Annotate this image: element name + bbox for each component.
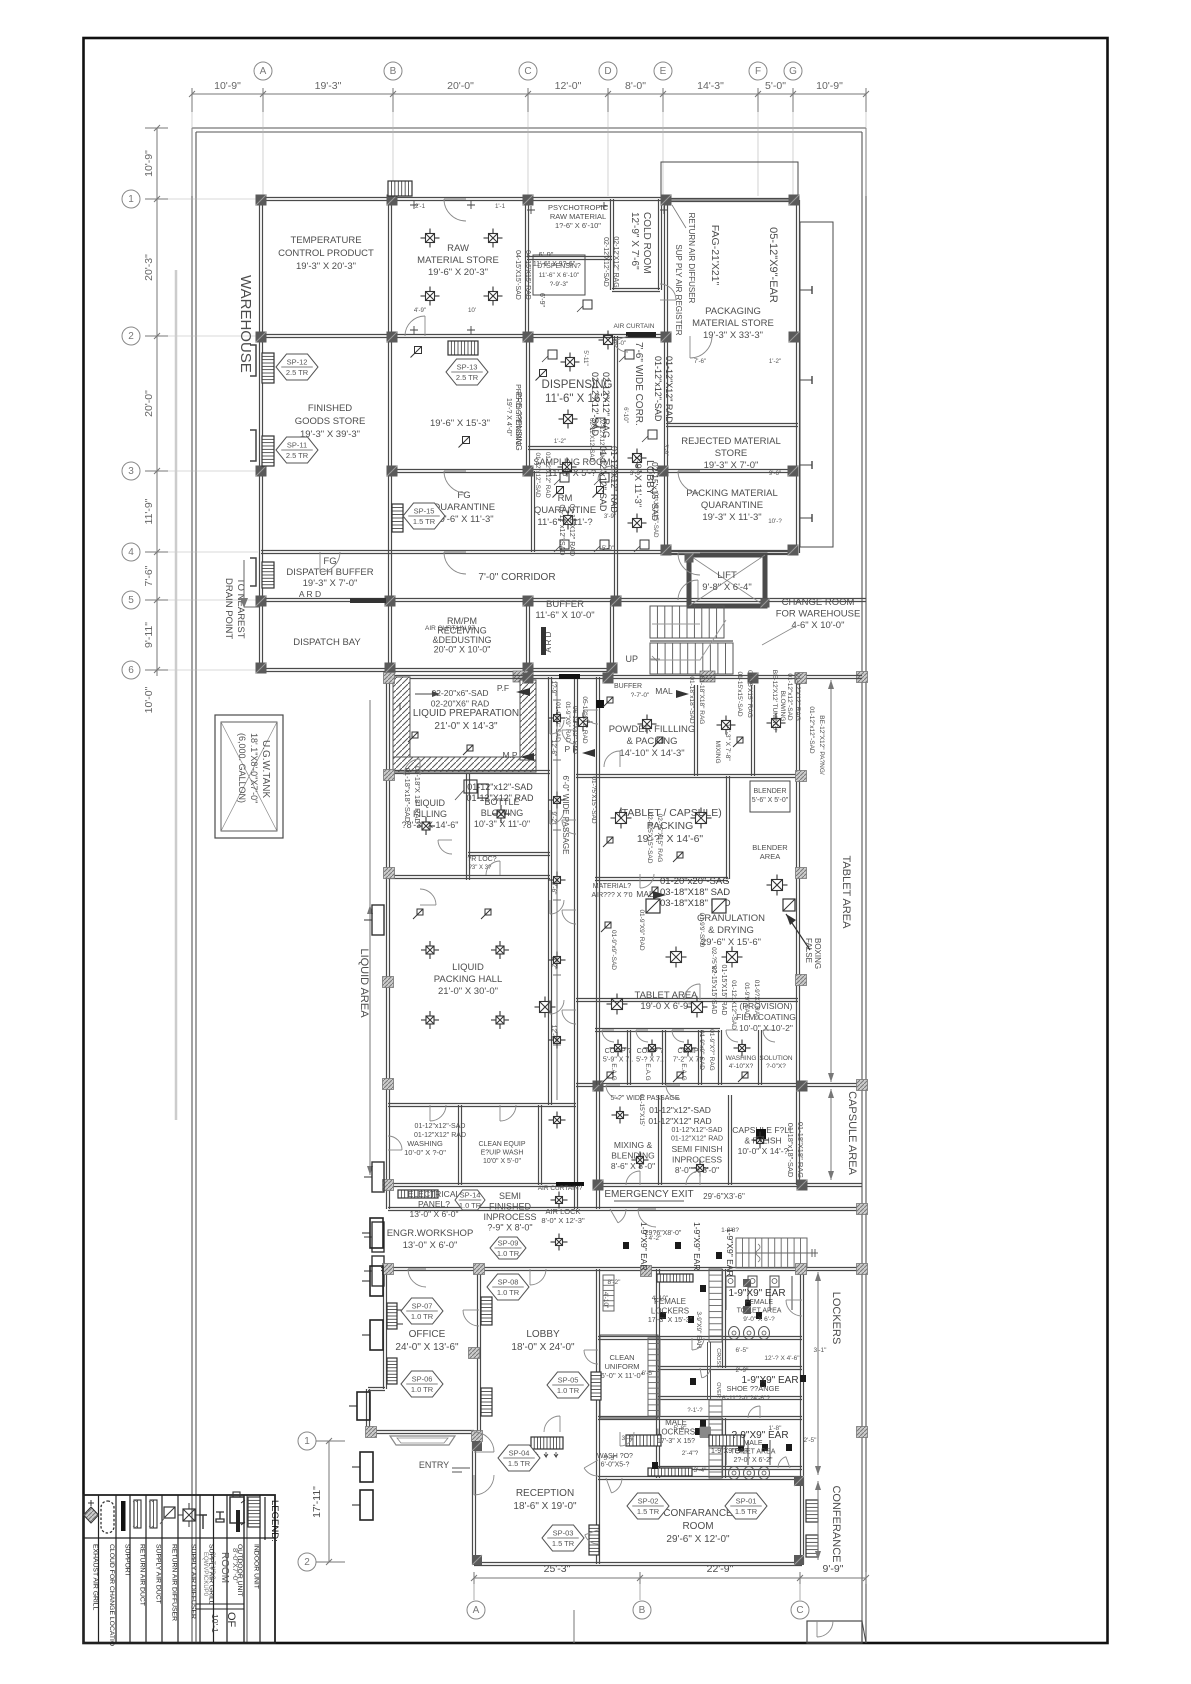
svg-text:5'-0": 5'-0" bbox=[765, 80, 786, 92]
svg-text:U.G.W.TANK: U.G.W.TANK bbox=[260, 740, 271, 798]
svg-text:3'-4": 3'-4" bbox=[694, 1467, 708, 1474]
svg-text:1.0 TR: 1.0 TR bbox=[557, 1386, 580, 1395]
svg-text:LIFT: LIFT bbox=[717, 570, 737, 581]
svg-text:EMERGENCY EXIT: EMERGENCY EXIT bbox=[604, 1189, 693, 1200]
svg-text:E.A.G: E.A.G bbox=[644, 1063, 651, 1080]
svg-text:UP: UP bbox=[625, 654, 638, 664]
svg-text:8'-0"X7'-0": 8'-0"X7'-0" bbox=[231, 1548, 240, 1583]
svg-text:02-12'X12" RAG: 02-12'X12" RAG bbox=[598, 417, 605, 463]
svg-text:10'-3" X 11'-0": 10'-3" X 11'-0" bbox=[474, 819, 530, 829]
svg-text:01-18"x18"-SAD: 01-18"x18"-SAD bbox=[403, 768, 412, 823]
svg-text:1?-6" X 6'-10": 1?-6" X 6'-10" bbox=[555, 221, 601, 230]
svg-text:6'-10": 6'-10" bbox=[622, 407, 629, 423]
svg-text:MALE: MALE bbox=[743, 1440, 762, 1447]
svg-text:4'-10": 4'-10" bbox=[602, 1292, 609, 1309]
svg-text:01-12"X12" RAD: 01-12"X12" RAD bbox=[609, 446, 619, 513]
svg-text:MATERIAL STORE: MATERIAL STORE bbox=[692, 318, 774, 329]
svg-text:21'-0" X 30'-0": 21'-0" X 30'-0" bbox=[438, 986, 498, 997]
svg-text:11'-6" X 9?-6": 11'-6" X 9?-6" bbox=[533, 261, 576, 268]
svg-text:1-9"X9" EAR: 1-9"X9" EAR bbox=[692, 1222, 702, 1271]
svg-text:SP-03: SP-03 bbox=[553, 1529, 574, 1538]
svg-text:2.5 TR: 2.5 TR bbox=[286, 451, 309, 460]
svg-text:1.5 TR: 1.5 TR bbox=[637, 1507, 660, 1516]
svg-text:5: 5 bbox=[128, 595, 134, 606]
svg-text:17'-11": 17'-11" bbox=[311, 1486, 323, 1518]
svg-text:FAG-21'X21": FAG-21'X21" bbox=[709, 225, 721, 286]
svg-text:7'-6": 7'-6" bbox=[694, 358, 706, 365]
svg-text:6: 6 bbox=[128, 665, 134, 676]
svg-text:AREA: AREA bbox=[760, 852, 780, 861]
svg-text:SP-04: SP-04 bbox=[509, 1449, 530, 1458]
svg-text:9'-0" X 6'-?: 9'-0" X 6'-? bbox=[743, 1316, 775, 1323]
svg-text:AIR CURTAIN 07: AIR CURTAIN 07 bbox=[425, 625, 475, 632]
svg-text:25'-3": 25'-3" bbox=[544, 1563, 571, 1575]
svg-text:AIR CURTAIN?: AIR CURTAIN? bbox=[538, 1185, 583, 1192]
svg-text:14'-10" X 14'-3": 14'-10" X 14'-3" bbox=[619, 748, 684, 759]
svg-text:1: 1 bbox=[304, 1436, 310, 1447]
svg-text:13'-0" X 6'-0": 13'-0" X 6'-0" bbox=[403, 1240, 458, 1251]
svg-text:PSYCHOTROPIC: PSYCHOTROPIC bbox=[548, 203, 609, 212]
svg-text:REJECTED MATERIAL: REJECTED MATERIAL bbox=[681, 436, 781, 447]
svg-text:10'-?: 10'-? bbox=[768, 518, 782, 525]
svg-text:4'-10"X?: 4'-10"X? bbox=[729, 1063, 754, 1070]
svg-text:MAL: MAL bbox=[655, 686, 673, 696]
svg-text:PACKING MATERIAL: PACKING MATERIAL bbox=[686, 488, 778, 499]
svg-text:INPROCESS: INPROCESS bbox=[672, 1155, 722, 1165]
svg-text:01-9"X?" RAG: 01-9"X?" RAG bbox=[708, 1029, 715, 1070]
svg-text:SOLUTION: SOLUTION bbox=[759, 1055, 793, 1062]
svg-text:2: 2 bbox=[128, 331, 134, 342]
svg-text:MIXING: MIXING bbox=[714, 740, 721, 763]
svg-text:2: 2 bbox=[304, 1557, 310, 1568]
svg-text:5'-6" X 5'-0": 5'-6" X 5'-0" bbox=[752, 797, 789, 804]
svg-text:01-12"X12" RAD: 01-12"X12" RAD bbox=[544, 452, 551, 499]
svg-text:19'-3" X 7'-0": 19'-3" X 7'-0" bbox=[704, 460, 759, 471]
svg-text:10'-0": 10'-0" bbox=[143, 686, 155, 713]
svg-text:DISPATCH BAY: DISPATCH BAY bbox=[293, 637, 361, 648]
svg-text:01-12"x12"-SAD: 01-12"x12"-SAD bbox=[649, 1105, 711, 1115]
svg-text:02-4?5'X15"-SAD: 02-4?5'X15"-SAD bbox=[646, 813, 653, 864]
svg-text:TOILET AREA: TOILET AREA bbox=[737, 1308, 782, 1315]
svg-text:17'-3" X 15?: 17'-3" X 15? bbox=[657, 1438, 695, 1445]
svg-text:AIR CURTAIN: AIR CURTAIN bbox=[614, 323, 655, 330]
svg-text:UNIFORM: UNIFORM bbox=[605, 1362, 640, 1371]
svg-text:RETURN AIR DIFFUSER: RETURN AIR DIFFUSER bbox=[687, 213, 696, 304]
svg-text:& PACKING: & PACKING bbox=[626, 736, 677, 747]
svg-text:9'-8" X 6'-4": 9'-8" X 6'-4" bbox=[702, 582, 751, 593]
svg-text:02-?5"x?: 02-?5"x? bbox=[710, 947, 717, 973]
svg-text:2.5 TR: 2.5 TR bbox=[456, 373, 479, 382]
svg-text:1.0 TR: 1.0 TR bbox=[411, 1385, 434, 1394]
svg-text:SP-07: SP-07 bbox=[412, 1302, 433, 1311]
svg-text:PRE-??ENSING: PRE-??ENSING bbox=[514, 392, 523, 451]
svg-text:TABLET AREA: TABLET AREA bbox=[840, 856, 852, 930]
svg-text:1'-2": 1'-2" bbox=[769, 358, 781, 365]
svg-text:TABLET AREA: TABLET AREA bbox=[634, 990, 698, 1001]
svg-text:2?-0" X 6'-2": 2?-0" X 6'-2" bbox=[734, 1457, 774, 1464]
svg-text:01-12"X12" RAD: 01-12"X12" RAD bbox=[414, 1132, 466, 1139]
svg-text:SP-01: SP-01 bbox=[736, 1497, 757, 1506]
svg-text:WASHING: WASHING bbox=[407, 1139, 443, 1148]
svg-text:1.5 TR: 1.5 TR bbox=[735, 1507, 758, 1516]
svg-text:01-12"X12" RAD: 01-12"X12" RAD bbox=[671, 1136, 723, 1143]
svg-text:FINISHED: FINISHED bbox=[308, 403, 352, 414]
svg-text:COLD ROOM: COLD ROOM bbox=[641, 212, 652, 274]
svg-text:6'-9": 6'-9" bbox=[539, 250, 554, 259]
svg-text:4'-9": 4'-9" bbox=[414, 307, 426, 314]
svg-text:01-9"X9" RAD: 01-9"X9" RAD bbox=[638, 909, 645, 950]
svg-text:AIR??? X ?'0: AIR??? X ?'0 bbox=[591, 892, 632, 899]
svg-text:INDOOR UNIT: INDOOR UNIT bbox=[253, 1544, 260, 1589]
svg-text:5'-8": 5'-8" bbox=[674, 1425, 688, 1432]
svg-text:19'-6" X 20'-3": 19'-6" X 20'-3" bbox=[428, 267, 488, 278]
svg-text:1'-1: 1'-1 bbox=[495, 203, 506, 210]
svg-text:CLEAN: CLEAN bbox=[609, 1353, 634, 1362]
svg-text:A: A bbox=[473, 1605, 480, 1616]
svg-text:01-12"X12" RAD: 01-12"X12" RAD bbox=[648, 1116, 711, 1126]
svg-text:3'-1": 3'-1" bbox=[814, 1347, 828, 1354]
svg-text:?R LOC?: ?R LOC? bbox=[467, 856, 496, 863]
svg-text:7'-6" WIDE CORR.: 7'-6" WIDE CORR. bbox=[633, 342, 644, 426]
svg-text:SP-05: SP-05 bbox=[558, 1376, 579, 1385]
svg-text:11'-9": 11'-9" bbox=[143, 498, 155, 524]
svg-text:BUFFER: BUFFER bbox=[614, 683, 642, 690]
svg-text:CLEAN EQUIP: CLEAN EQUIP bbox=[478, 1141, 525, 1148]
svg-text:BLENDER: BLENDER bbox=[753, 788, 786, 795]
svg-text:MATERIAL?: MATERIAL? bbox=[593, 883, 631, 890]
svg-text:SUPPLY AIR DUCT: SUPPLY AIR DUCT bbox=[155, 1544, 162, 1604]
svg-text:G: G bbox=[789, 66, 797, 77]
svg-text:10'0" X 5'-0": 10'0" X 5'-0" bbox=[483, 1158, 522, 1165]
svg-text:C: C bbox=[796, 1605, 803, 1616]
svg-text:C: C bbox=[524, 66, 531, 77]
svg-text:20'-0" X 10'-0": 20'-0" X 10'-0" bbox=[434, 645, 491, 655]
svg-text:INPROCESS: INPROCESS bbox=[483, 1212, 536, 1222]
svg-text:11'-6" X 10'-0": 11'-6" X 10'-0" bbox=[535, 610, 594, 621]
svg-text:8'-2": 8'-2" bbox=[608, 1279, 622, 1286]
svg-text:SP-02: SP-02 bbox=[638, 1497, 659, 1506]
svg-text:OF: OF bbox=[225, 1612, 237, 1628]
svg-text:21'-0" X 14'-3": 21'-0" X 14'-3" bbox=[434, 721, 498, 732]
svg-text:7'-0" CORRIDOR: 7'-0" CORRIDOR bbox=[478, 572, 555, 583]
svg-text:10'-9": 10'-9" bbox=[214, 80, 241, 92]
svg-text:E?UIP WASH: E?UIP WASH bbox=[481, 1150, 524, 1157]
svg-text:1.0 TR: 1.0 TR bbox=[497, 1249, 520, 1258]
svg-text:10'-0" X ?-0": 10'-0" X ?-0" bbox=[404, 1148, 446, 1157]
svg-text:02-?5"X15" RAG: 02-?5"X15" RAG bbox=[656, 814, 663, 863]
svg-text:WASHING: WASHING bbox=[726, 1055, 757, 1062]
svg-text:OFFICE: OFFICE bbox=[409, 1329, 446, 1340]
svg-text:1.5 TR: 1.5 TR bbox=[413, 517, 436, 526]
svg-text:01-15'x15'-SAD: 01-15'x15'-SAD bbox=[736, 671, 743, 716]
svg-text:6'-5": 6'-5" bbox=[736, 1347, 750, 1354]
svg-text:1.5 TR: 1.5 TR bbox=[552, 1539, 575, 1548]
svg-text:SUPPLY AIR DIFFUSER: SUPPLY AIR DIFFUSER bbox=[190, 1544, 197, 1619]
svg-text:22'-9": 22'-9" bbox=[707, 1563, 734, 1575]
svg-text:AIR LOCK: AIR LOCK bbox=[545, 1207, 580, 1216]
svg-text:FEMALE: FEMALE bbox=[745, 1299, 773, 1306]
svg-text:01-15"X15': 01-15"X15' bbox=[638, 1094, 645, 1126]
svg-text:01-12"X12" RAD: 01-12"X12" RAD bbox=[467, 793, 534, 803]
svg-text:01-18"x18"-SAD: 01-18"x18"-SAD bbox=[786, 1123, 795, 1178]
svg-text:3: 3 bbox=[128, 466, 134, 477]
svg-text:1?-9": 1?-9" bbox=[550, 680, 557, 696]
svg-text:1-3'8?: 1-3'8? bbox=[721, 1227, 739, 1234]
svg-text:SP-09: SP-09 bbox=[498, 1239, 519, 1248]
svg-text:8'-0" X 12'-3": 8'-0" X 12'-3" bbox=[541, 1216, 585, 1225]
svg-text:1.0 TR: 1.0 TR bbox=[411, 1312, 434, 1321]
svg-text:SUPPORT: SUPPORT bbox=[124, 1544, 131, 1577]
svg-text:EQWVPICKUP0: EQWVPICKUP0 bbox=[202, 1552, 208, 1597]
svg-text:B: B bbox=[390, 66, 397, 77]
svg-text:18'-6" X 19'-0": 18'-6" X 19'-0" bbox=[513, 1501, 577, 1512]
svg-text:02-12'X12'-SAD: 02-12'X12'-SAD bbox=[602, 237, 609, 287]
svg-text:QUARANTINE: QUARANTINE bbox=[701, 500, 763, 511]
svg-text:01-18"X18" RAG: 01-18"X18" RAG bbox=[698, 676, 705, 725]
svg-text:01-121X12"-SAD: 01-121X12"-SAD bbox=[730, 980, 737, 1030]
svg-text:1.5 TR: 1.5 TR bbox=[508, 1459, 531, 1468]
svg-text:QUARANTINE: QUARANTINE bbox=[433, 502, 495, 513]
svg-text:A: A bbox=[260, 66, 267, 77]
svg-text:19'-6" X 15'-3": 19'-6" X 15'-3" bbox=[430, 418, 490, 429]
svg-text:CROSS: CROSS bbox=[715, 1348, 721, 1368]
svg-text:1: 1 bbox=[128, 194, 134, 205]
svg-text:2'-9": 2'-9" bbox=[736, 1367, 750, 1374]
svg-text:GOODS STORE: GOODS STORE bbox=[295, 416, 366, 427]
svg-text:MATERIAL STORE: MATERIAL STORE bbox=[417, 255, 499, 266]
svg-text:01-15'X15"-SAD: 01-15'X15"-SAD bbox=[652, 493, 659, 539]
svg-text:CONFERANCE: CONFERANCE bbox=[830, 1485, 842, 1562]
svg-text:LIQUID AREA: LIQUID AREA bbox=[358, 948, 370, 1018]
svg-text:10'-0" X 14'-?: 10'-0" X 14'-? bbox=[738, 1146, 789, 1156]
svg-text:6'-0" X 11'-0": 6'-0" X 11'-0" bbox=[601, 1371, 644, 1380]
svg-text:MIXING &: MIXING & bbox=[614, 1140, 653, 1150]
svg-text:20'-3": 20'-3" bbox=[143, 254, 155, 281]
svg-text:6'-11"?-0"?4'-6"?: 6'-11"?-0"?4'-6"? bbox=[722, 1395, 770, 1402]
svg-text:10'-9": 10'-9" bbox=[816, 80, 843, 92]
svg-text:19'-? X 4'-0": 19'-? X 4'-0" bbox=[505, 398, 512, 436]
svg-text:4: 4 bbox=[128, 547, 134, 558]
svg-text:CLOUD FOR CHANGE LOCATIO: CLOUD FOR CHANGE LOCATIO bbox=[108, 1544, 115, 1646]
svg-text:01-12"x12"-SAD: 01-12"x12"-SAD bbox=[415, 1123, 466, 1130]
svg-text:BLENDING: BLENDING bbox=[611, 1151, 654, 1161]
svg-text:?-9'-3": ?-9'-3" bbox=[550, 281, 569, 288]
svg-text:A R D: A R D bbox=[299, 589, 321, 599]
svg-text:6'-0" WIDE PASSAGE: 6'-0" WIDE PASSAGE bbox=[561, 776, 570, 855]
svg-text:F: F bbox=[755, 66, 761, 77]
svg-text:CHANGE ROOM: CHANGE ROOM bbox=[782, 597, 855, 608]
svg-text:12'-9" X 7'-6": 12'-9" X 7'-6" bbox=[629, 212, 640, 270]
svg-text:9'-6": 9'-6" bbox=[769, 470, 781, 477]
svg-text:4'-10": 4'-10" bbox=[652, 1295, 669, 1302]
svg-text:BUFFER: BUFFER bbox=[546, 599, 584, 610]
svg-text:19'-3" X 11'-3": 19'-3" X 11'-3" bbox=[702, 512, 761, 523]
svg-text:RECEPTION: RECEPTION bbox=[516, 1488, 574, 1499]
svg-text:SP-13: SP-13 bbox=[457, 363, 478, 372]
svg-text:4-6" X 10'-0": 4-6" X 10'-0" bbox=[792, 620, 845, 631]
svg-text:(6,000. GALLON): (6,000. GALLON) bbox=[237, 733, 247, 803]
svg-text:LOCKERS: LOCKERS bbox=[651, 1307, 689, 1316]
svg-text:11'-6" X 6'-10": 11'-6" X 6'-10" bbox=[539, 272, 580, 279]
svg-text:2.5 TR: 2.5 TR bbox=[286, 368, 309, 377]
svg-text:ENGR.WORKSHOP: ENGR.WORKSHOP bbox=[387, 1228, 474, 1239]
svg-text:02-15'x15'-SAD: 02-15'x15'-SAD bbox=[710, 966, 717, 1015]
svg-text:01-18"x18"-SAD: 01-18"x18"-SAD bbox=[688, 676, 695, 724]
svg-text:01-18"X18" RAG: 01-18"X18" RAG bbox=[796, 1122, 805, 1178]
svg-text:ENTRY: ENTRY bbox=[419, 1460, 449, 1470]
svg-text:7'-6": 7'-6" bbox=[143, 565, 155, 586]
svg-text:SP-14: SP-14 bbox=[460, 1191, 481, 1200]
svg-text:BLOWING: BLOWING bbox=[779, 691, 786, 722]
svg-text:SP-08: SP-08 bbox=[498, 1278, 519, 1287]
svg-text:SP-12: SP-12 bbox=[287, 358, 308, 367]
svg-text:B: B bbox=[639, 1605, 646, 1616]
svg-text:TEMPERATURE: TEMPERATURE bbox=[290, 235, 361, 246]
svg-text:ELECTRICAL: ELECTRICAL bbox=[408, 1189, 461, 1199]
svg-text:19'-3" X 20'-3": 19'-3" X 20'-3" bbox=[296, 261, 356, 272]
svg-text:D: D bbox=[604, 66, 611, 77]
svg-text:LOCKERS: LOCKERS bbox=[830, 1292, 842, 1345]
svg-text:?L.T.X?;0: ?L.T.X?;0 bbox=[209, 1552, 216, 1580]
svg-text:19'-0 X 6'-9": 19'-0 X 6'-9" bbox=[640, 1001, 691, 1012]
svg-text:13'-0" X 6'-0": 13'-0" X 6'-0" bbox=[410, 1209, 459, 1219]
svg-text:1'-8": 1'-8" bbox=[769, 1425, 783, 1432]
svg-text:05-12"X9"-EAR: 05-12"X9"-EAR bbox=[767, 227, 779, 303]
svg-text:01-?5'X15"-SAD: 01-?5'X15"-SAD bbox=[590, 776, 597, 824]
svg-text:PACKAGING: PACKAGING bbox=[705, 306, 761, 317]
svg-text:P.F: P.F bbox=[497, 683, 509, 693]
svg-text:20'-0": 20'-0" bbox=[143, 390, 155, 417]
svg-text:FINISHED: FINISHED bbox=[489, 1202, 532, 1212]
svg-text:1-9"X9"EAR: 1-9"X9"EAR bbox=[711, 1448, 749, 1455]
svg-text:CAPSULE AREA: CAPSULE AREA bbox=[846, 1091, 858, 1175]
svg-text:01-12"x12"-SAD: 01-12"x12"-SAD bbox=[653, 356, 663, 422]
svg-text:PANEL?: PANEL? bbox=[418, 1199, 450, 1209]
svg-text:2'-1: 2'-1 bbox=[415, 203, 426, 210]
svg-text:01-12"x12"-SAD: 01-12"x12"-SAD bbox=[534, 453, 541, 499]
svg-text:GRANULATION: GRANULATION bbox=[697, 913, 765, 924]
svg-text:1-9"X9" EAR: 1-9"X9" EAR bbox=[639, 1222, 649, 1271]
svg-text:2'-4"?: 2'-4"? bbox=[682, 1450, 699, 1457]
svg-text:01-12"X12" RAD: 01-12"X12" RAD bbox=[664, 356, 674, 423]
svg-text:BOXING: BOXING bbox=[813, 938, 822, 969]
svg-text:12'-0": 12'-0" bbox=[555, 80, 582, 92]
svg-text:01-9"X9" RAD: 01-9"X9" RAD bbox=[564, 701, 571, 742]
svg-text:5'-11": 5'-11" bbox=[582, 350, 589, 365]
svg-text:6'-0"X5-?: 6'-0"X5-? bbox=[601, 1462, 630, 1469]
svg-text:12'-? X 4'-6": 12'-? X 4'-6" bbox=[764, 1355, 800, 1362]
svg-text:SP-15: SP-15 bbox=[414, 507, 435, 516]
svg-text:01-9"x9"-SAD: 01-9"x9"-SAD bbox=[698, 1030, 705, 1070]
svg-text:6'-5": 6'-5" bbox=[642, 1370, 656, 1377]
svg-text:6'-9": 6'-9" bbox=[538, 293, 545, 307]
svg-text:?-1'-?: ?-1'-? bbox=[687, 1408, 703, 1414]
svg-text:19'-3" X 7'-0": 19'-3" X 7'-0" bbox=[303, 578, 358, 589]
svg-text:04-15'X15'-SAD: 04-15'X15'-SAD bbox=[514, 250, 521, 300]
svg-text:01-18"X 18" RAD: 01-18"X 18" RAD bbox=[413, 766, 422, 824]
svg-text:1.0 TR: 1.0 TR bbox=[497, 1288, 520, 1297]
svg-text:1-9"X9" EAR: 1-9"X9" EAR bbox=[741, 1375, 798, 1386]
svg-text:?-9" X 8'-0": ?-9" X 8'-0" bbox=[487, 1223, 532, 1233]
svg-text:01-9"x9"-SAD: 01-9"x9"-SAD bbox=[610, 930, 617, 970]
svg-text:LIQUID: LIQUID bbox=[452, 962, 484, 973]
svg-text:SEMI FINISH: SEMI FINISH bbox=[671, 1144, 722, 1154]
svg-text:10'-9": 10'-9" bbox=[143, 150, 155, 177]
svg-text:02-12'X12'-SAD: 02-12'X12'-SAD bbox=[588, 418, 595, 463]
svg-text:3'-9": 3'-9" bbox=[662, 444, 669, 456]
svg-text:01-9'9'-SAD: 01-9'9'-SAD bbox=[698, 913, 705, 948]
svg-text:01-12'X12" RAG: 01-12'X12" RAG bbox=[794, 673, 801, 721]
svg-text:01-12"x12"-SAD: 01-12"x12"-SAD bbox=[786, 673, 793, 721]
svg-text:SP-11: SP-11 bbox=[287, 441, 307, 450]
svg-text:5'-9" X 7..: 5'-9" X 7.. bbox=[603, 1057, 633, 1064]
svg-text:29'-6"X3'-6": 29'-6"X3'-6" bbox=[703, 1192, 745, 1201]
svg-text:BE-12"X12" PA?NG/: BE-12"X12" PA?NG/ bbox=[818, 715, 825, 775]
svg-text:ROOM: ROOM bbox=[219, 1552, 230, 1583]
svg-text:10'-0" X 10'-2": 10'-0" X 10'-2" bbox=[739, 1023, 793, 1033]
svg-text:3-9"X9" EAR: 3-9"X9" EAR bbox=[695, 1311, 702, 1348]
svg-text:12'-6": 12'-6" bbox=[550, 740, 557, 757]
svg-text:SEMI: SEMI bbox=[499, 1191, 521, 1201]
svg-text:FOR WAREHOUSE: FOR WAREHOUSE bbox=[776, 609, 861, 620]
svg-text:24'-0" X 13'-6": 24'-0" X 13'-6" bbox=[395, 1342, 459, 1353]
svg-text:8'-0": 8'-0" bbox=[625, 80, 646, 92]
svg-text:DISPATCH BUFFER: DISPATCH BUFFER bbox=[286, 567, 373, 578]
svg-text:2'-5": 2'-5" bbox=[804, 1437, 818, 1444]
svg-text:01-20"x20"-SAG: 01-20"x20"-SAG bbox=[660, 876, 730, 887]
svg-text:DRAIN POINT: DRAIN POINT bbox=[223, 578, 234, 639]
svg-text:1-9"X9" EAR: 1-9"X9" EAR bbox=[725, 1228, 735, 1277]
svg-text:RAW: RAW bbox=[447, 243, 469, 254]
svg-text:01-9?X? RAG: 01-9?X? RAG bbox=[753, 980, 760, 1020]
svg-text:1.0 TR: 1.0 TR bbox=[459, 1201, 482, 1210]
svg-text:CONTROL PRODUCT: CONTROL PRODUCT bbox=[278, 248, 374, 259]
svg-text:ROOM: ROOM bbox=[682, 1521, 713, 1532]
svg-text:01-12"x12"-SAD: 01-12"x12"-SAD bbox=[672, 1127, 723, 1134]
svg-text:9'-9": 9'-9" bbox=[823, 1563, 844, 1575]
svg-text:02-20"x6"-SAD: 02-20"x6"-SAD bbox=[431, 688, 488, 698]
svg-text:FALSE: FALSE bbox=[804, 938, 813, 963]
svg-text:19'-3": 19'-3" bbox=[315, 80, 342, 92]
svg-text:LEGEND:: LEGEND: bbox=[269, 1500, 280, 1542]
svg-text:01-12"x12"-SAD: 01-12"x12"-SAD bbox=[558, 505, 565, 556]
svg-text:01-9'9" SAD: 01-9'9" SAD bbox=[743, 982, 750, 1018]
svg-text:EXHAUST AIR GRILL: EXHAUST AIR GRILL bbox=[92, 1544, 99, 1611]
svg-text:01-12"x12"-SAD: 01-12"x12"-SAD bbox=[808, 706, 815, 754]
svg-text:&DEDUSTING: &DEDUSTING bbox=[432, 635, 491, 645]
svg-text:01-15'X15" RAD: 01-15'X15" RAD bbox=[720, 965, 727, 1016]
svg-text:03-18"X18" SAD: 03-18"X18" SAD bbox=[660, 887, 730, 898]
svg-text:RM: RM bbox=[558, 493, 573, 504]
svg-text:RAW MATERIAL: RAW MATERIAL bbox=[550, 212, 606, 221]
svg-text:8'-6" X 8'-0": 8'-6" X 8'-0" bbox=[611, 1161, 655, 1171]
svg-text:?-7'-0": ?-7'-0" bbox=[631, 692, 650, 699]
svg-text:?-0"X?: ?-0"X? bbox=[766, 1063, 786, 1070]
svg-text:WAREHOUSE: WAREHOUSE bbox=[237, 275, 254, 373]
svg-text:PACKING HALL: PACKING HALL bbox=[434, 974, 502, 985]
svg-text:14'-3": 14'-3" bbox=[697, 80, 724, 92]
svg-text:?3" X 3?: ?3" X 3? bbox=[469, 865, 492, 871]
svg-text:LOBBY: LOBBY bbox=[526, 1329, 560, 1340]
svg-text:M.P: M.P bbox=[502, 750, 517, 760]
svg-text:5'-3": 5'-3" bbox=[604, 1455, 618, 1462]
svg-text:SP-06: SP-06 bbox=[412, 1375, 433, 1384]
svg-text:01-15'X15" RAG: 01-15'X15" RAG bbox=[746, 670, 753, 718]
svg-text:18'.1"X8'-0"X7'-0": 18'.1"X8'-0"X7'-0" bbox=[249, 733, 259, 803]
svg-text:9'-11": 9'-11" bbox=[143, 622, 155, 648]
svg-text:10': 10' bbox=[468, 307, 476, 314]
svg-text:4'-2": 4'-2" bbox=[649, 1235, 663, 1242]
